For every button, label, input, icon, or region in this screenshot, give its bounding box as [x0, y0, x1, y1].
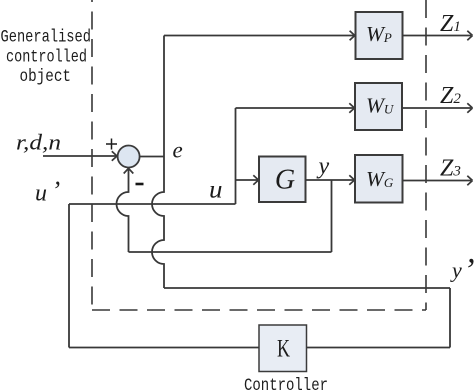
wire r,d,n input: [43, 155, 117, 157]
summing junction: [118, 146, 140, 168]
wire u-node vertical (x=235.5): [235, 108, 237, 204]
arrowhead into G: [253, 175, 258, 185]
wire e output of summing junction: [140, 156, 164, 158]
dashed boundary bottom: [92, 309, 426, 311]
wire feedback vertical (x=128.5) with hop over u-wire: [117, 168, 129, 252]
svg-text:r,d,n: r,d,n: [16, 130, 61, 155]
svg-text:K: K: [277, 335, 290, 363]
wire u horizontal (y=204): [69, 203, 236, 205]
minus sign: [136, 183, 144, 186]
dashed boundary right: [425, 0, 427, 310]
svg-text:Controller: Controller: [244, 376, 328, 391]
plus sign: [106, 139, 117, 150]
wire to Wu (horizontal y=108): [236, 107, 355, 109]
arrowhead into Wp: [350, 31, 355, 41]
arrowhead Z1: [467, 31, 472, 41]
wire into G: [236, 179, 259, 181]
dashed boundary left (generalised controlled object box): [91, 0, 93, 310]
wire y-node vertical (x=331.5): [331, 180, 333, 252]
wire K output (right, y=347.5): [307, 347, 451, 349]
wire Z3 output: [403, 180, 472, 182]
block G: [259, 157, 306, 203]
label: Generalised controlled object: [1, 28, 92, 88]
arrowhead into Wu: [349, 103, 354, 113]
arrowhead Z3: [467, 176, 472, 186]
svg-text:e: e: [173, 138, 183, 163]
block K (controller): [259, 325, 307, 372]
arrowhead into Wg: [349, 175, 354, 185]
block Wu: [355, 83, 402, 130]
svg-text:Generalised: Generalised: [1, 28, 92, 48]
svg-text:y: y: [317, 154, 330, 180]
wire y from G to Wg: [306, 179, 355, 181]
wire to Wp (top horizontal): [164, 35, 354, 37]
wire Z2 output: [402, 107, 471, 109]
wire K input (left, y=347.5): [69, 347, 259, 349]
svg-text:G: G: [275, 164, 295, 195]
wire u' vertical (x=69): [68, 204, 70, 348]
wire y' horizontal (y=288): [164, 287, 450, 289]
arrowhead into summing junction (bottom): [124, 168, 134, 173]
block Wg: [355, 155, 403, 203]
svg-text:u: u: [209, 177, 223, 204]
arrowhead Z2: [467, 103, 472, 113]
arrowhead into summing junction (left): [112, 151, 117, 161]
block Wp: [356, 12, 403, 59]
wire feedback horizontal (y=252): [129, 251, 332, 253]
svg-text:controlled: controlled: [6, 47, 87, 67]
wire Z1 output: [403, 35, 472, 37]
wire y' vertical (x=450): [449, 288, 451, 348]
svg-text:object: object: [20, 67, 72, 87]
wire e-node vertical (x=164) with hops over u-wire and feedback wire: [152, 36, 164, 289]
